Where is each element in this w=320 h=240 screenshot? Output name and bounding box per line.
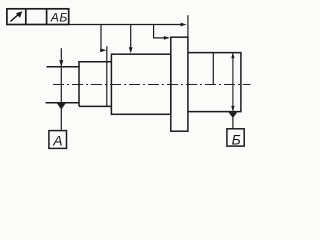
svg-text:АБ: АБ (50, 11, 68, 25)
centerline (53, 84, 251, 86)
shaft section 2 (79, 62, 111, 107)
leader wire from frame (69, 24, 184, 26)
datum leader Б (232, 117, 234, 129)
dimension line of right journal diameter (232, 53, 234, 112)
datum line А (60, 48, 62, 130)
svg-text:А: А (52, 132, 62, 148)
flange (171, 37, 188, 131)
runout symbol (10, 11, 22, 21)
leader branch wire 1 (101, 25, 102, 51)
shaft section 1 bottom edge (46, 102, 80, 104)
svg-text:Б: Б (232, 132, 241, 148)
datum triangle Б (229, 112, 238, 118)
datum triangle А (57, 103, 66, 109)
shaft section 4 (right journal) (188, 53, 241, 112)
dimension arrow down (231, 106, 234, 112)
leader arrow to flange left face (164, 36, 170, 40)
arrow on datum line А (59, 60, 63, 66)
leader branch wire 2 (130, 25, 132, 49)
leader arrow to step face (100, 48, 106, 52)
shaft section 3 (111, 54, 170, 114)
dimension arrow up (231, 53, 234, 59)
leader arrow to flange right face (181, 23, 187, 27)
leader arrow onto section 3 top (129, 47, 133, 53)
datum box Б (227, 129, 244, 146)
extension line above flange right face (187, 15, 189, 37)
measured section line on section 2 (106, 46, 108, 106)
section boundary line on right journal (212, 53, 214, 85)
datum box А (49, 131, 67, 149)
shaft section 1 top edge (47, 66, 80, 68)
feature control frame (7, 9, 69, 25)
leader branch wire 3 (154, 25, 166, 38)
